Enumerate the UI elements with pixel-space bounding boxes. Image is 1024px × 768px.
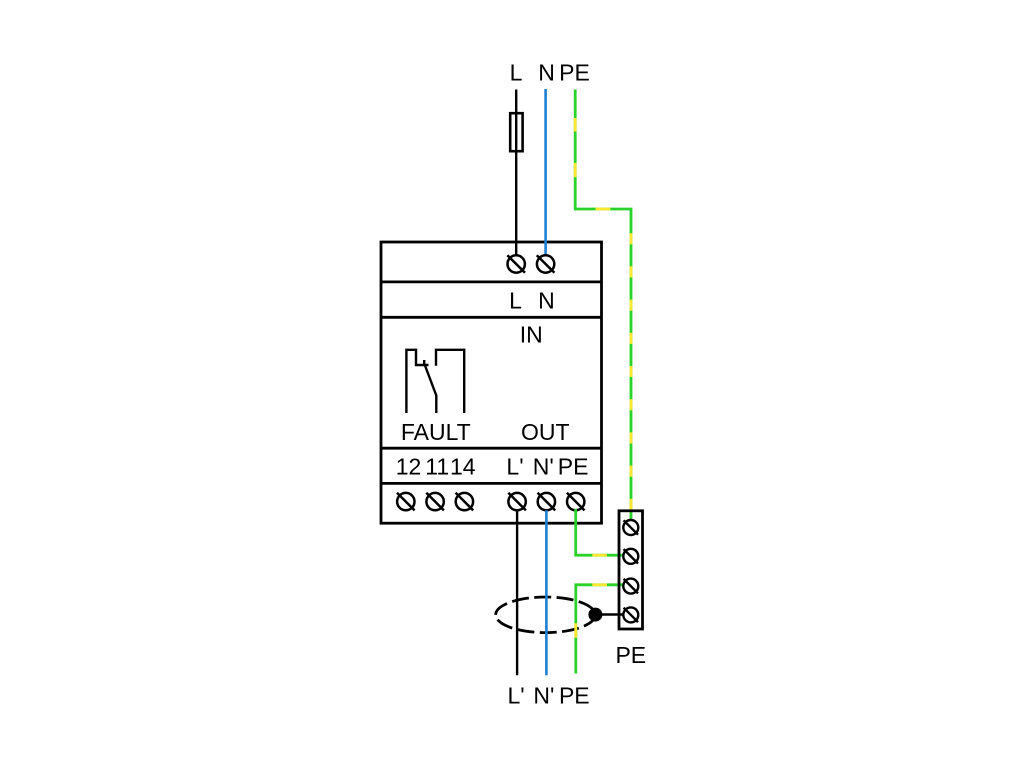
- wire shield to PE block: [595, 613, 624, 615]
- relay contact K1 moving arm: [425, 366, 436, 396]
- relay contact K1 NO contact and terminal 14 lead: [436, 350, 464, 413]
- svg-text:N': N': [533, 682, 554, 708]
- svg-text:N: N: [538, 60, 555, 86]
- svg-text:PE: PE: [558, 454, 589, 480]
- wire PE to load: [576, 585, 624, 674]
- svg-text:N': N': [533, 454, 554, 480]
- cable shield ellipse: [496, 597, 596, 633]
- svg-text:L: L: [509, 288, 522, 314]
- wire PE input: [575, 90, 631, 520]
- svg-text:L: L: [510, 60, 523, 86]
- terminal 12: [397, 493, 415, 511]
- svg-text:FAULT: FAULT: [401, 419, 471, 445]
- terminal N IN: [537, 255, 555, 273]
- svg-text:14: 14: [450, 454, 476, 480]
- fuse F1: [510, 113, 522, 151]
- terminal 14: [456, 493, 474, 511]
- svg-text:L': L': [508, 682, 525, 708]
- svg-text:N: N: [538, 288, 555, 314]
- PE block screw 3: [623, 579, 638, 594]
- svg-text:OUT: OUT: [521, 419, 570, 445]
- svg-text:PE: PE: [615, 642, 646, 668]
- PE block screw 1: [623, 520, 638, 535]
- terminal N' OUT: [538, 493, 556, 511]
- relay contact K1 NC tick: [423, 360, 425, 366]
- wire N' output: [545, 510, 548, 675]
- terminal PE OUT: [567, 493, 585, 511]
- svg-text:11: 11: [425, 454, 449, 480]
- wire L' output: [516, 510, 518, 675]
- PE terminal block: [619, 511, 643, 629]
- terminal 11: [426, 493, 444, 511]
- relay contact K1 terminal 12 lead with NC contact: [406, 350, 428, 413]
- PE block screw 2: [623, 549, 638, 564]
- terminal L IN: [507, 255, 525, 273]
- relay contact K1 common lead (11): [435, 395, 437, 413]
- svg-text:PE: PE: [559, 60, 590, 86]
- device box U1: [381, 242, 602, 523]
- svg-text:12: 12: [396, 454, 422, 480]
- terminal L' OUT: [508, 493, 526, 511]
- wire L input: [515, 90, 517, 256]
- junction dot: [588, 608, 602, 622]
- wire PE output to terminal block: [576, 509, 624, 556]
- wire N input: [544, 89, 547, 255]
- svg-text:IN: IN: [520, 322, 543, 348]
- svg-text:PE: PE: [559, 682, 590, 708]
- PE block screw 4: [623, 607, 638, 622]
- svg-text:L': L': [506, 454, 523, 480]
